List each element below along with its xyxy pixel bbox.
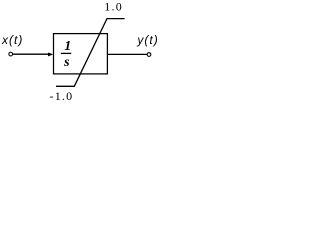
saturation line [56,19,125,87]
output terminal [147,53,151,57]
svg-text:x(t): x(t) [1,33,23,47]
wire output [107,53,146,55]
svg-text:y(t): y(t) [136,33,158,47]
fraction bar [61,52,71,54]
input terminal [9,52,13,56]
svg-text:1.0: 1.0 [104,0,123,14]
svg-text:-1.0: -1.0 [50,89,74,103]
block U1 box [54,34,108,74]
wire input [13,53,49,55]
svg-text:s: s [63,55,70,70]
svg-text:1: 1 [64,39,71,54]
arrowhead into block [48,53,53,57]
